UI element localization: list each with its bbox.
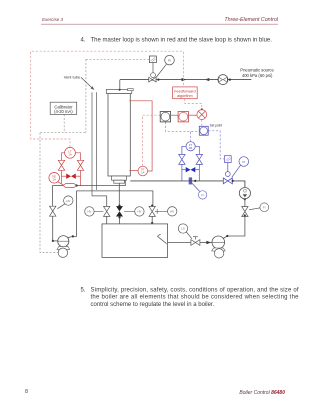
wire: FT manifold right branch (195, 146, 199, 154)
svg-text:1A: 1A (141, 171, 145, 175)
node: riser junction (119, 89, 121, 91)
svg-text:5.: 5. (81, 287, 86, 293)
wire: multiplier to set point square (201, 120, 203, 127)
node: venturi outlet (76, 184, 78, 186)
svg-text:HV: HV (66, 199, 70, 203)
vent line valve (104, 206, 110, 216)
manifold valve left (58, 160, 64, 170)
svg-text:The master loop is shown in re: The master loop is shown in red and the … (91, 37, 273, 43)
wire: blue dashed set point to I/P (208, 131, 224, 159)
flow transmitter FT circle (blue) (186, 142, 195, 151)
node: below check valve (244, 214, 246, 216)
valve actuator diaphragm (151, 73, 156, 78)
wire: red master signal route (LT to feedforward) (31, 51, 184, 147)
wire: tag line (249, 208, 260, 210)
svg-text:HV: HV (137, 210, 141, 214)
feed pump P1 (58, 236, 69, 247)
node: multiplier input (201, 108, 203, 110)
wire: red row link (171, 114, 179, 116)
svg-text:Three-Element Control: Three-Element Control (224, 17, 278, 23)
node: after orifice (194, 180, 196, 182)
svg-text:Boiler Control 86480: Boiler Control 86480 (239, 390, 285, 396)
manifold valve right (blue) (196, 154, 202, 164)
wire: blue dashed FT stub (190, 131, 192, 142)
svg-text:4.: 4. (81, 37, 86, 43)
left drain valve (50, 206, 56, 216)
left drain tag circle (64, 196, 73, 205)
column centerline (118, 95, 120, 174)
svg-text:1B: 1B (189, 146, 193, 150)
steam control valve V1 (149, 77, 156, 82)
pipe: steam header (120, 79, 149, 81)
flow element tag circle (49, 173, 60, 184)
svg-text:Vent tube: Vent tube (64, 75, 80, 80)
node: above check valve (244, 198, 246, 200)
vent tube pointer arrow (81, 77, 93, 88)
wire: blue equalizer stubs (182, 169, 186, 171)
vent tube outer wall (91, 92, 93, 196)
svg-text:Simplicity, precision, safety,: Simplicity, precision, safety, costs, co… (91, 287, 299, 293)
tank inlet node (151, 205, 153, 207)
controller square FIC (red) (178, 112, 188, 122)
vent valve tag circle (85, 207, 94, 216)
wire: red impulse hookup lower tap (129, 170, 138, 172)
node: after feedwater valve (232, 180, 234, 182)
svg-text:Pneumatic source: Pneumatic source (240, 67, 274, 72)
pump P2 motor (214, 249, 223, 258)
wire: equalizer stubs (62, 175, 67, 177)
svg-text:PI: PI (242, 160, 245, 164)
tank inlet tag circle (168, 207, 177, 216)
wire: grey calibrator bus horizontal (40, 132, 86, 134)
flow arrow air supply (left) (205, 78, 209, 81)
pressure transmitter PT circle (138, 166, 148, 176)
wire: feedforward box to multiplier (185, 99, 202, 109)
wire: LT manifold right branch (75, 153, 80, 160)
pipe: vent tube bottom jog (92, 196, 107, 206)
wire: grey drop to pump motor (40, 133, 58, 253)
svg-text:FI: FI (201, 193, 204, 197)
svg-text:HV: HV (87, 210, 91, 214)
node: below blowdown valve (118, 216, 120, 218)
node: pump suction (52, 240, 54, 242)
feedwater control valve (blue) (223, 178, 232, 184)
calibrator box (50, 102, 76, 114)
flow sensor circle (239, 188, 250, 199)
svg-text:PI: PI (168, 58, 171, 62)
pipe: return header (77, 191, 153, 206)
wire: grey calibrator riser (85, 59, 87, 132)
column top right tab (128, 89, 134, 91)
wire: red impulse hookup upper tap (129, 101, 152, 171)
tank inlet valve (149, 206, 155, 216)
check valve (242, 207, 248, 217)
wire: tag diagonal (186, 232, 192, 239)
column bottom flange (112, 176, 127, 180)
svg-text:the boiler are all elements th: the boiler are all elements that should … (91, 295, 300, 301)
pipe: to pump 2 (200, 242, 212, 244)
actuator diaphragm (blue) (225, 172, 230, 177)
wire: I/P to valve stem (227, 163, 229, 172)
flow arrow into pump 2 (206, 241, 210, 244)
pressure indicator circle (blue, below orifice) (198, 191, 206, 199)
svg-text:FI: FI (263, 206, 266, 210)
set point controller square (blue) (199, 126, 208, 135)
boiler column body (108, 94, 130, 177)
manifold valve left (blue) (179, 154, 185, 164)
wire: gauge diagonal (156, 64, 166, 77)
venturi flow element (red) (63, 184, 77, 188)
pressure gauge PI (165, 55, 175, 65)
check valve side tag circle (260, 203, 269, 212)
level transmitter LT circle (65, 147, 76, 158)
manifold valve right (77, 160, 83, 170)
I/P converter square (blue) (224, 156, 231, 163)
wire: FT manifold left branch (182, 146, 186, 154)
svg-text:(4-20 mA): (4-20 mA) (54, 109, 73, 114)
wire: pump 2 discharge riser (223, 216, 245, 238)
node: discharge elbow 2 (226, 235, 228, 237)
wire: steam riser (119, 80, 121, 90)
multiplier (red circle with X) (197, 110, 207, 120)
node: pneumatic junction (229, 79, 231, 81)
svg-text:Exercise 3: Exercise 3 (42, 17, 64, 22)
blowdown valve (closed, black) (116, 206, 123, 216)
svg-text:Feedforward: Feedforward (174, 89, 195, 93)
svg-text:8: 8 (25, 389, 28, 395)
svg-text:1A: 1A (52, 178, 56, 182)
node: tank inlet at tank top (151, 222, 153, 224)
node: discharge elbow (72, 235, 74, 237)
air filter regulator (218, 75, 228, 85)
pipe: drain header upper (52, 185, 63, 187)
controller square LIC (black) (160, 112, 170, 122)
svg-text:control scheme to regulate the: control scheme to regulate the level in … (91, 302, 215, 308)
equalizer valve (closed, red) (66, 174, 76, 179)
node: above blowdown valve (118, 205, 120, 207)
pump P1 motor (58, 248, 67, 257)
feedforward algorithm box (173, 87, 198, 99)
pipe: left drain drop (51, 186, 53, 206)
wire: grey calibrator signal to I/P (horizontal) (86, 58, 149, 60)
wire: orifice tag diagonal (192, 183, 200, 191)
svg-text:LS: LS (181, 227, 185, 231)
equalizer valve (closed, blue) (186, 167, 196, 172)
svg-text:Set point: Set point (210, 124, 223, 128)
solenoid valve on tank outlet (191, 240, 200, 246)
svg-text:400 kPa (60 psi): 400 kPa (60 psi) (242, 73, 273, 78)
header rule (41, 23, 278, 25)
pump P2 (212, 236, 225, 249)
blowdown tag circle (135, 207, 144, 216)
I/P converter square (149, 56, 156, 63)
solenoid tag circle (178, 224, 187, 233)
node: after valve (157, 79, 159, 81)
pipe: feedwater header (130, 180, 223, 182)
flow arrow on steam pipe (182, 78, 186, 81)
storage tank (102, 224, 168, 258)
wire: LT manifold left branch (62, 153, 65, 160)
wire: tag diagonal (58, 204, 65, 209)
column top cap (106, 89, 132, 93)
wire: pump discharge (68, 191, 77, 238)
wire: tag diagonal to venturi (58, 182, 64, 186)
pressure gauge PI circle (blue) (239, 157, 249, 167)
wire: PT signal dashed (143, 115, 161, 166)
wire: calibrator box stub (63, 114, 65, 132)
svg-text:HV: HV (170, 210, 174, 214)
svg-text:1A: 1A (68, 153, 72, 157)
svg-text:algorithm: algorithm (177, 94, 193, 98)
vent tube inner wall (96, 92, 98, 190)
orifice plate (blue) on feedwater pipe (189, 177, 192, 184)
float lever in tank (157, 234, 166, 244)
column drain drop (118, 183, 120, 205)
pipe: tank outlet (168, 242, 191, 244)
wire: blue gauge diagonal (232, 165, 241, 177)
wire: blue dashed LIC to set point square (165, 122, 199, 131)
